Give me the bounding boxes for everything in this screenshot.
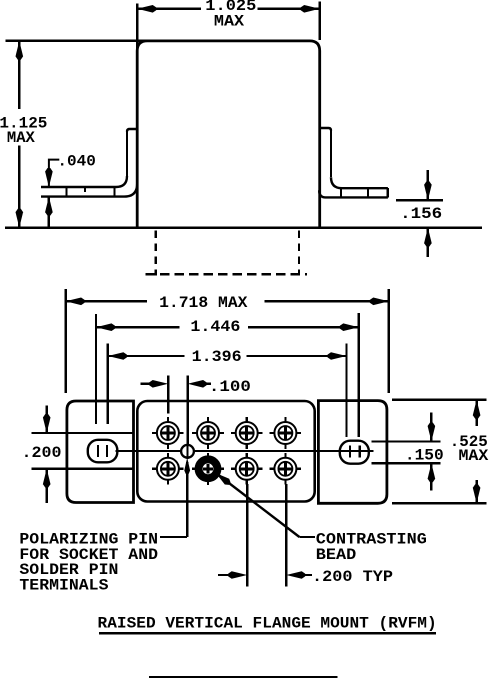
svg-text:TERMINALS: TERMINALS: [19, 577, 109, 595]
svg-text:.200 TYP: .200 TYP: [312, 568, 393, 586]
svg-text:1.446: 1.446: [190, 318, 240, 336]
svg-text:MAX: MAX: [459, 447, 489, 465]
svg-text:.100: .100: [209, 378, 251, 396]
svg-text:MAX: MAX: [7, 129, 35, 147]
svg-text:1.718 MAX: 1.718 MAX: [159, 294, 248, 312]
svg-text:.040: .040: [57, 153, 96, 171]
svg-text:BEAD: BEAD: [316, 546, 357, 564]
svg-text:.200: .200: [22, 444, 62, 462]
svg-text:MAX: MAX: [214, 12, 245, 30]
svg-text:1.396: 1.396: [192, 348, 242, 366]
svg-text:RAISED VERTICAL FLANGE MOUNT (: RAISED VERTICAL FLANGE MOUNT (RVFM): [98, 615, 437, 633]
svg-text:.156: .156: [400, 205, 442, 223]
svg-text:.150: .150: [405, 446, 444, 464]
